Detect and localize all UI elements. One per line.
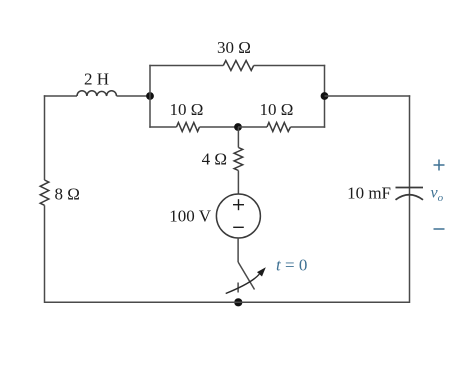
wire inductor to node — [117, 95, 151, 97]
node junction center — [234, 123, 242, 131]
svg-text:4 Ω: 4 Ω — [202, 150, 227, 169]
resistor 4 ohm — [234, 148, 243, 171]
wire top rail right — [254, 65, 326, 67]
resistor 10 ohm left — [177, 123, 200, 132]
node junction right — [321, 92, 329, 100]
label minus capacitor polarity — [434, 228, 445, 230]
wire right branch vertical — [324, 65, 326, 128]
wire top-left to inductor — [44, 95, 77, 97]
wire middle rail left — [149, 126, 176, 128]
svg-text:2 H: 2 H — [84, 70, 109, 89]
switch blade — [238, 262, 254, 290]
wire left rail lower — [44, 205, 46, 303]
wire source to switch — [237, 238, 239, 262]
svg-text:vo: vo — [431, 185, 444, 205]
svg-text:8 Ω: 8 Ω — [55, 185, 80, 204]
svg-text:t = 0: t = 0 — [276, 256, 307, 275]
svg-text:10 Ω: 10 Ω — [170, 100, 204, 119]
wire right rail — [409, 95, 411, 303]
node junction left — [146, 92, 154, 100]
wire 4 ohm top stub — [237, 127, 239, 148]
node junction bottom — [234, 298, 242, 306]
voltage source 100 V — [216, 194, 260, 238]
resistor 8 ohm — [40, 180, 49, 205]
capacitor 10 mF — [396, 188, 424, 200]
svg-text:10 mF: 10 mF — [347, 184, 391, 203]
label plus capacitor polarity — [434, 160, 445, 171]
switch actuation arrow — [226, 267, 266, 293]
wire bottom rail — [45, 301, 410, 303]
svg-text:100 V: 100 V — [169, 207, 211, 226]
wire middle rail center-left — [200, 126, 239, 128]
svg-text:30 Ω: 30 Ω — [217, 38, 251, 57]
wire middle rail center-right — [238, 126, 267, 128]
wire left branch vertical — [149, 65, 151, 128]
wire node to right rail — [325, 95, 411, 97]
resistor 30 ohm — [223, 61, 253, 71]
inductor 2 H — [77, 91, 117, 96]
svg-text:10 Ω: 10 Ω — [260, 100, 294, 119]
wire left rail upper — [44, 95, 46, 180]
wire top rail left — [149, 65, 223, 67]
switch fixed contact — [237, 283, 239, 293]
wire middle rail right — [291, 126, 326, 128]
resistor 10 ohm right — [267, 123, 291, 132]
wire 4 ohm to source — [237, 171, 239, 195]
